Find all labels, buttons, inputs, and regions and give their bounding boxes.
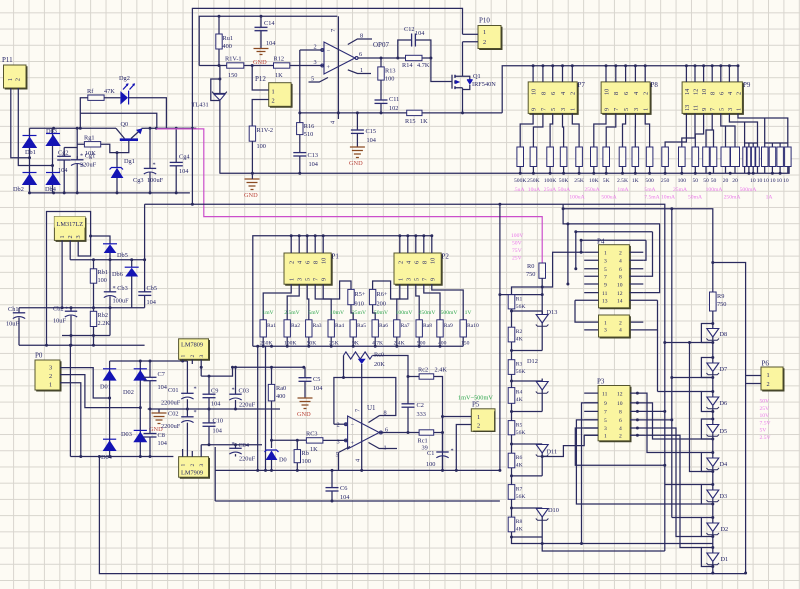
wire mesh verticals	[637, 343, 712, 485]
svg-text:2.5V: 2.5V	[760, 435, 771, 441]
Ra name labels	[267, 323, 479, 329]
wire R0 to v1	[500, 294, 542, 296]
output voltage labels magenta	[760, 399, 771, 442]
bridge column right	[139, 361, 141, 457]
svg-text:104: 104	[309, 161, 319, 168]
svg-text:25mV: 25mV	[352, 310, 366, 316]
svg-text:10: 10	[777, 178, 783, 184]
svg-text:D13: D13	[547, 309, 558, 316]
svg-text:3: 3	[604, 328, 607, 334]
svg-text:+: +	[351, 440, 355, 447]
svg-text:8: 8	[313, 261, 320, 264]
svg-text:Cg4: Cg4	[179, 154, 190, 161]
svg-text:Cb2 *: Cb2 *	[53, 306, 68, 313]
svg-text:1K: 1K	[310, 446, 318, 453]
svg-text:1: 1	[397, 278, 404, 281]
svg-text:R1V-2: R1V-2	[257, 127, 274, 134]
resistor Rb	[294, 440, 311, 470]
svg-text:2.4K: 2.4K	[435, 367, 448, 374]
svg-text:8: 8	[384, 410, 387, 417]
resistor R15	[405, 110, 428, 125]
svg-text:C6: C6	[340, 485, 347, 492]
svg-text:12: 12	[617, 291, 623, 297]
capacitor Cg3 polarized	[133, 128, 164, 193]
bridge column left	[109, 361, 111, 457]
diode Db1	[22, 136, 37, 157]
wire R0 to ladder	[512, 287, 543, 295]
svg-text:12: 12	[617, 392, 623, 398]
diode D04	[101, 439, 117, 461]
svg-text:4: 4	[619, 426, 622, 432]
svg-text:5mV: 5mV	[308, 310, 319, 316]
svg-text:C12: C12	[404, 26, 415, 33]
svg-text:Db2: Db2	[13, 186, 24, 193]
svg-text:R0: R0	[527, 263, 534, 270]
wire R9 feed	[563, 209, 713, 292]
svg-text:Ra0: Ra0	[276, 385, 286, 392]
svg-text:Db5: Db5	[117, 252, 128, 259]
wire P3 pin1 to D11 node	[542, 435, 598, 456]
svg-text:5K: 5K	[603, 178, 610, 184]
svg-text:R8: R8	[516, 519, 523, 525]
svg-text:R7: R7	[516, 487, 523, 493]
svg-text:1K: 1K	[420, 118, 428, 125]
wire P3 pin5 route	[576, 420, 701, 504]
svg-text:1K: 1K	[275, 72, 283, 79]
voltage tap labels green	[262, 310, 471, 316]
svg-text:IRF540N: IRF540N	[472, 81, 496, 88]
svg-text:3: 3	[199, 355, 205, 358]
svg-text:104: 104	[58, 167, 68, 174]
svg-text:10: 10	[603, 89, 610, 95]
svg-text:10: 10	[429, 258, 436, 264]
P4 left stubs	[575, 252, 599, 300]
svg-text:500K: 500K	[514, 178, 526, 184]
svg-text:Q0: Q0	[121, 121, 129, 128]
wire P1P2 top bus	[253, 236, 432, 346]
svg-text:3: 3	[633, 108, 640, 111]
vertical second riser	[265, 346, 267, 470]
capacitor C7	[144, 361, 168, 409]
svg-text:910: 910	[355, 301, 364, 308]
connector P4	[597, 238, 630, 309]
capacitor C14	[255, 16, 277, 48]
svg-text:Db4: Db4	[45, 186, 57, 193]
bus 470	[215, 469, 500, 471]
svg-text:2200uF: 2200uF	[161, 400, 181, 407]
svg-text:2: 2	[190, 464, 196, 467]
svg-text:50mA: 50mA	[688, 195, 702, 201]
svg-text:104: 104	[179, 168, 189, 175]
svg-text:1: 1	[483, 29, 486, 36]
zener D5	[706, 425, 727, 437]
svg-text:50: 50	[711, 178, 717, 184]
svg-text:10uF: 10uF	[6, 321, 19, 328]
magenta wire top	[156, 129, 542, 263]
svg-text:4K: 4K	[516, 397, 523, 403]
svg-text:10: 10	[770, 178, 776, 184]
svg-text:C13: C13	[308, 152, 319, 159]
svg-text:220uF: 220uF	[80, 162, 97, 169]
svg-text:8: 8	[619, 410, 622, 416]
connector P3	[597, 378, 631, 442]
bus 502	[215, 500, 500, 502]
resistor R2	[508, 309, 522, 343]
wire bottom rail of 317 section	[19, 344, 145, 346]
svg-text:P10: P10	[479, 17, 490, 25]
svg-text:100: 100	[302, 458, 311, 465]
svg-text:OP07: OP07	[373, 41, 389, 49]
wire Ra0 to RC3 branch	[272, 439, 298, 441]
connector P4B	[599, 315, 631, 338]
svg-text:8: 8	[421, 261, 428, 264]
zener D6	[706, 397, 727, 409]
P1 pin7 wire to Ra4	[315, 284, 331, 320]
svg-text:10: 10	[617, 401, 623, 407]
svg-text:2: 2	[15, 78, 22, 81]
wire bottom bus	[30, 192, 190, 194]
svg-text:25mA: 25mA	[673, 187, 687, 193]
connector P2	[394, 253, 449, 286]
svg-text:Cb5: Cb5	[147, 285, 158, 292]
svg-text:P12: P12	[255, 75, 266, 83]
bypass loops upper diodes	[701, 324, 712, 440]
P1 pin5 wire to Ra3	[307, 284, 309, 320]
svg-text:Q1: Q1	[473, 73, 481, 80]
svg-text:102: 102	[389, 105, 398, 112]
wire P12 pin1	[252, 66, 269, 91]
svg-text:13: 13	[684, 105, 691, 111]
svg-text:D12: D12	[527, 358, 538, 365]
resistor array group1	[517, 147, 582, 167]
svg-text:500mV: 500mV	[441, 310, 458, 316]
svg-text:2: 2	[337, 422, 340, 429]
zener D7	[706, 363, 727, 375]
svg-text:250uA: 250uA	[584, 187, 599, 193]
svg-text:5: 5	[623, 108, 630, 111]
svg-text:100mA: 100mA	[706, 187, 723, 193]
capacitor C03 polarized	[229, 367, 255, 409]
ground under C14	[253, 49, 269, 67]
svg-text:R15: R15	[405, 118, 416, 125]
resistor R6	[508, 435, 522, 469]
svg-text:Ra2: Ra2	[291, 323, 300, 329]
svg-text:10: 10	[321, 258, 328, 264]
svg-text:3: 3	[314, 59, 317, 66]
zener Dg1	[110, 151, 135, 193]
svg-text:C02: C02	[168, 411, 179, 418]
svg-text:1: 1	[604, 251, 607, 257]
capacitor C12	[398, 26, 431, 58]
svg-text:R13: R13	[385, 68, 396, 75]
svg-text:Ra5: Ra5	[357, 323, 366, 329]
svg-text:104: 104	[147, 299, 157, 306]
svg-text:100uF: 100uF	[113, 298, 130, 305]
svg-text:Ra3: Ra3	[313, 323, 322, 329]
P2 pin9 wire to Ra10	[432, 284, 463, 320]
P2 pin1 wire to R6+	[373, 281, 400, 299]
svg-text:Cg3: Cg3	[133, 177, 144, 184]
svg-text:8: 8	[710, 92, 717, 95]
svg-text:20: 20	[723, 178, 729, 184]
capacitor Cb3 polarized	[104, 260, 129, 336]
svg-text:7: 7	[710, 108, 717, 111]
svg-text:D04: D04	[101, 454, 113, 461]
wire P0 pin2	[60, 375, 140, 408]
svg-text:Ra10: Ra10	[467, 323, 479, 329]
svg-text:C2: C2	[417, 402, 424, 409]
svg-text:333: 333	[417, 411, 426, 418]
capacitor C6	[326, 470, 351, 501]
regulator LM317LZ	[54, 217, 85, 242]
svg-text:Dg1: Dg1	[124, 158, 135, 165]
wire P11 pin2 to bridge	[18, 88, 52, 166]
svg-text:2: 2	[67, 235, 74, 238]
svg-text:Rb1: Rb1	[98, 269, 109, 276]
P1 pin3 wire to Ra2	[287, 284, 299, 320]
svg-text:150: 150	[228, 72, 237, 79]
svg-text:6: 6	[550, 92, 557, 95]
svg-text:6: 6	[413, 261, 420, 264]
svg-text:50V: 50V	[760, 399, 770, 405]
svg-text:1A: 1A	[766, 195, 773, 201]
svg-text:4: 4	[619, 328, 622, 334]
wire P4 loop3	[581, 240, 646, 260]
svg-text:LM7809: LM7809	[181, 342, 203, 349]
svg-text:P1: P1	[332, 253, 340, 261]
svg-text:1: 1	[181, 464, 187, 467]
resistor RC3	[297, 431, 323, 454]
node dots on inner frame	[218, 15, 221, 18]
svg-text:7: 7	[421, 278, 428, 281]
resistor R1V-2	[249, 126, 273, 173]
capacitor C15	[351, 111, 377, 147]
svg-text:D5: D5	[720, 428, 728, 435]
wire gnd bus long	[220, 167, 790, 174]
svg-text:10uA: 10uA	[528, 187, 540, 193]
op-amp OP07	[300, 16, 398, 124]
svg-text:Ch1: Ch1	[8, 306, 19, 313]
P1 top stubs	[291, 236, 323, 253]
capacitor C1 polarized	[426, 433, 454, 471]
resistor R4	[508, 374, 522, 403]
wire P6 net riser	[713, 263, 746, 574]
resistor array bottom stubs	[520, 167, 788, 174]
svg-text:* Cb3: * Cb3	[113, 285, 128, 292]
wire right drop to lower rail	[191, 127, 194, 130]
svg-text:400: 400	[223, 43, 232, 50]
svg-text:3: 3	[727, 108, 734, 111]
svg-text:3: 3	[75, 235, 82, 238]
svg-text:4: 4	[330, 120, 337, 124]
svg-text:11: 11	[693, 105, 700, 111]
svg-text:RC3: RC3	[306, 431, 318, 438]
svg-text:1K: 1K	[632, 178, 639, 184]
svg-text:D4: D4	[720, 461, 729, 468]
wire LM317 pin1	[61, 240, 63, 307]
svg-text:12: 12	[693, 89, 700, 95]
diode Db3	[45, 128, 60, 146]
svg-text:1: 1	[736, 108, 743, 111]
svg-text:400: 400	[276, 393, 285, 400]
svg-text:C01: C01	[168, 387, 179, 394]
wire left riser	[214, 447, 216, 501]
svg-text:250mV: 250mV	[419, 310, 436, 316]
connector P12	[255, 75, 292, 107]
wire U1 feedback box	[334, 378, 396, 425]
svg-text:P11: P11	[2, 56, 13, 64]
svg-text:1mV: 1mV	[262, 310, 273, 316]
resistor R14	[398, 55, 431, 69]
resistor R12	[274, 56, 325, 80]
rail mid	[70, 259, 144, 261]
capacitor Cg2	[57, 148, 71, 193]
svg-text:*: *	[194, 386, 197, 393]
svg-text:25V: 25V	[760, 406, 770, 412]
rail B	[19, 307, 145, 309]
svg-text:104: 104	[340, 494, 350, 501]
vertical from Ra bus	[257, 346, 259, 470]
svg-text:P8: P8	[651, 81, 659, 89]
wire rail 335	[62, 335, 110, 337]
svg-text:1: 1	[767, 372, 770, 379]
svg-text:50mV: 50mV	[374, 310, 388, 316]
wire LM317 pin2	[69, 240, 71, 259]
P9 top pin stubs	[686, 66, 738, 82]
svg-text:10: 10	[531, 89, 538, 95]
wire inner frame	[199, 16, 337, 65]
svg-text:3: 3	[337, 439, 340, 446]
svg-text:500uA: 500uA	[601, 195, 616, 201]
P7 bottom pin wires	[520, 113, 579, 147]
diode chain column	[712, 311, 714, 573]
svg-text:D2: D2	[721, 526, 729, 533]
svg-text:D8: D8	[720, 331, 728, 338]
svg-text:9: 9	[604, 401, 607, 407]
resistors Ra1-Ra10	[260, 320, 466, 337]
svg-text:3: 3	[560, 108, 567, 111]
svg-text:Rc1: Rc1	[418, 438, 428, 445]
diode Db6	[112, 260, 139, 308]
wire Q1 source to rail	[462, 88, 464, 113]
svg-text:100K: 100K	[544, 178, 556, 184]
resistor R0	[526, 263, 546, 314]
svg-text:100uF: 100uF	[147, 177, 164, 184]
ground under C5	[297, 398, 313, 418]
svg-text:104: 104	[415, 30, 425, 37]
svg-text:5V: 5V	[760, 428, 767, 434]
Ra value labels	[260, 341, 470, 347]
svg-text:P7: P7	[578, 81, 586, 89]
resistor R1	[508, 295, 525, 310]
wire R0 to P4 pin1	[542, 252, 584, 287]
svg-text:250K: 250K	[527, 178, 539, 184]
svg-text:1: 1	[49, 382, 52, 389]
wire rail 204	[145, 204, 665, 551]
Ra bottom stubs and bus	[263, 337, 463, 346]
P1 pin9 wire to R5+	[323, 281, 351, 299]
svg-text:10: 10	[617, 282, 623, 288]
svg-text:2: 2	[190, 355, 196, 358]
resistor Rb2	[90, 308, 110, 346]
svg-text:P0: P0	[35, 352, 43, 360]
svg-text:C9: C9	[211, 388, 218, 395]
svg-text:9: 9	[701, 108, 708, 111]
wire P12 pin2 to R1V-2	[252, 100, 269, 127]
svg-text:Db6: Db6	[112, 271, 123, 278]
current range labels magenta	[513, 187, 772, 201]
svg-text:D10: D10	[548, 507, 559, 514]
svg-text:R2: R2	[516, 329, 523, 335]
wire P3 pin9 route	[582, 403, 599, 544]
wire source to P7 bus	[502, 66, 738, 113]
zener D13	[536, 309, 558, 351]
ground under C15	[349, 147, 365, 167]
svg-text:10: 10	[783, 178, 789, 184]
svg-text:10mV: 10mV	[330, 310, 344, 316]
svg-text:LM317LZ: LM317LZ	[57, 221, 84, 228]
svg-text:C7: C7	[158, 371, 165, 378]
svg-text:P9: P9	[743, 81, 751, 89]
svg-text:D6: D6	[720, 400, 728, 407]
svg-text:7: 7	[604, 275, 607, 281]
zener D11	[536, 444, 557, 476]
resistor Ru1	[216, 16, 233, 65]
svg-text:−: −	[327, 48, 331, 55]
connector P6	[711, 261, 784, 575]
voltage labels pink	[511, 233, 523, 262]
svg-text:GND: GND	[349, 160, 363, 167]
svg-text:10uF: 10uF	[53, 318, 66, 325]
svg-text:C15: C15	[366, 128, 377, 135]
op-amp U1	[323, 404, 397, 470]
P3 left stubs	[584, 393, 598, 435]
P2 pin3 wire to Ra7	[397, 284, 408, 320]
connector P9	[682, 81, 751, 114]
svg-text:11: 11	[602, 291, 608, 297]
capacitor Cb5	[138, 204, 157, 308]
connector P1	[284, 253, 339, 286]
resistor Rc2	[407, 367, 448, 471]
svg-text:* Cg1: * Cg1	[80, 153, 95, 160]
ladder bottom	[512, 532, 713, 544]
ladder to diode connectors	[512, 311, 543, 537]
svg-text:1: 1	[604, 434, 607, 440]
transistor Q0	[101, 121, 145, 153]
svg-text:Rb: Rb	[302, 450, 309, 457]
svg-text:D3: D3	[720, 493, 728, 500]
svg-text:GND: GND	[297, 411, 311, 418]
svg-text:5: 5	[305, 278, 312, 281]
bypass loops lower diodes	[701, 453, 712, 567]
svg-text:D03: D03	[121, 431, 132, 438]
svg-text:100: 100	[678, 178, 687, 184]
P1 pin1 wire to Ra1	[263, 284, 291, 320]
svg-text:1: 1	[181, 355, 187, 358]
svg-text:11: 11	[602, 392, 608, 398]
zener D3	[706, 490, 727, 502]
wire R14 to Q1 gate	[431, 58, 452, 82]
svg-text:220uF: 220uF	[239, 456, 256, 463]
svg-text:8: 8	[613, 92, 620, 95]
resistor R5+	[348, 289, 366, 319]
svg-text:10: 10	[763, 178, 769, 184]
svg-text:R1: R1	[516, 297, 523, 303]
svg-text:104: 104	[211, 401, 221, 408]
P4 right stubs	[629, 252, 657, 300]
resistor array group3	[679, 147, 792, 167]
svg-text:Db3: Db3	[46, 128, 57, 135]
